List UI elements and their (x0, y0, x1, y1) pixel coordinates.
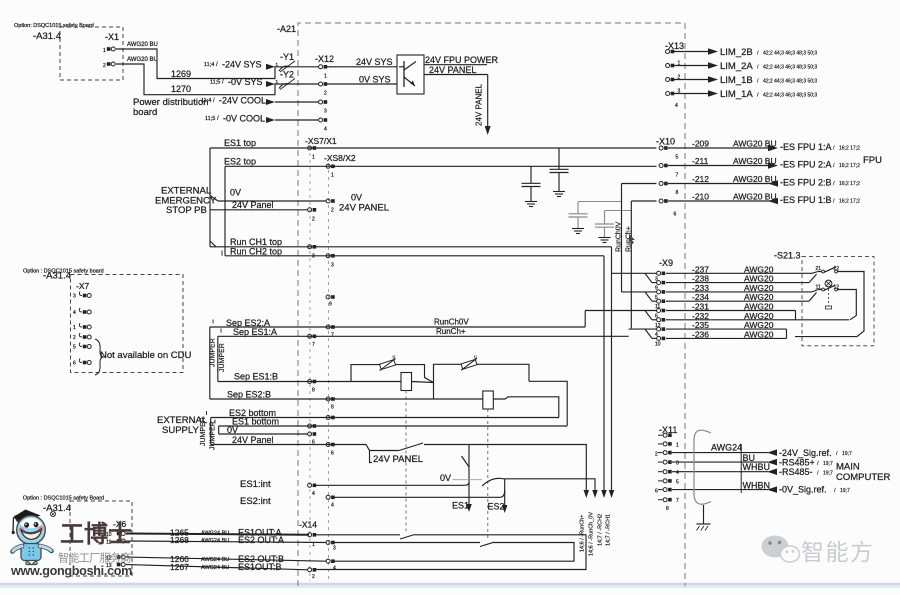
svg-text:AWG20 BU: AWG20 BU (733, 192, 777, 202)
svg-text:2: 2 (331, 208, 334, 214)
svg-text:1267: 1267 (170, 562, 189, 572)
svg-text:24V PANEL: 24V PANEL (429, 65, 476, 75)
svg-text:JUMPER: JUMPER (219, 343, 226, 372)
svg-text:-A31.4: -A31.4 (43, 271, 71, 282)
svg-text:-ES FPU 2:A: -ES FPU 2:A (780, 160, 832, 170)
svg-text:AWG24: AWG24 (711, 443, 742, 453)
svg-text:6: 6 (73, 361, 76, 367)
svg-text:-RS485-: -RS485- (779, 467, 813, 477)
svg-text:-S21.3: -S21.3 (774, 251, 801, 261)
svg-text:ES2: ES2 (488, 502, 505, 512)
svg-text:0V SYS: 0V SYS (359, 74, 391, 84)
svg-text:42;2 44;3 46;3 48;3 50;3: 42;2 44;3 46;3 48;3 50;3 (763, 79, 817, 85)
svg-text:14;7 / -RCH2: 14;7 / -RCH2 (598, 514, 604, 546)
svg-text:0V: 0V (351, 193, 362, 203)
svg-text:24V PANEL: 24V PANEL (373, 454, 423, 465)
svg-text:RunCh0V: RunCh0V (434, 318, 469, 327)
svg-text:AWG24 BU: AWG24 BU (201, 538, 229, 544)
svg-text:4: 4 (676, 470, 679, 476)
svg-text:7: 7 (676, 498, 679, 504)
svg-text:7: 7 (312, 342, 315, 348)
svg-text:-XS7/X1: -XS7/X1 (305, 136, 337, 146)
svg-text:1: 1 (73, 325, 76, 331)
svg-text:-X9: -X9 (659, 258, 673, 268)
svg-text:4: 4 (331, 503, 334, 509)
svg-text:19;7: 19;7 (840, 488, 850, 494)
svg-text:24V FPU POWER: 24V FPU POWER (425, 55, 499, 65)
svg-text:ES1:int: ES1:int (240, 479, 271, 490)
svg-text:21: 21 (816, 266, 822, 272)
svg-text:8: 8 (312, 388, 315, 394)
svg-text:FPU: FPU (863, 155, 882, 166)
svg-text:Not available on CDU: Not available on CDU (100, 350, 191, 361)
svg-text:8: 8 (666, 506, 669, 512)
svg-text:WHBU: WHBU (743, 462, 771, 472)
svg-text:www.gongboshi.com: www.gongboshi.com (10, 564, 132, 578)
svg-text:-24V SYS: -24V SYS (222, 60, 262, 70)
svg-text:16;2 17;2: 16;2 17;2 (839, 163, 860, 169)
svg-text:10: 10 (655, 341, 661, 347)
svg-text:-A31.4: -A31.4 (43, 503, 71, 514)
svg-text:1269: 1269 (171, 69, 191, 79)
svg-text:LIM_2B: LIM_2B (720, 47, 753, 58)
svg-text:19;7: 19;7 (823, 471, 833, 477)
svg-text:AWG24 BU: AWG24 BU (201, 531, 229, 537)
svg-text:WHBN: WHBN (743, 481, 771, 491)
svg-text:3: 3 (331, 263, 334, 269)
svg-text:MAIN: MAIN (836, 462, 860, 473)
svg-text:2: 2 (655, 452, 658, 458)
svg-text:AWG24 BU: AWG24 BU (201, 565, 229, 571)
svg-text:6: 6 (331, 451, 334, 457)
svg-text:ES1 top: ES1 top (224, 138, 256, 148)
svg-text:-ES FPU 2:B: -ES FPU 2:B (780, 178, 832, 188)
svg-text:42;2 44;3 46;3 48;3 50;3: 42;2 44;3 46;3 48;3 50;3 (763, 93, 817, 99)
svg-text:6: 6 (674, 212, 677, 218)
svg-text:0V: 0V (440, 473, 451, 483)
svg-text:AWG20 BU: AWG20 BU (127, 57, 158, 63)
svg-text:Sep ES2:B: Sep ES2:B (227, 390, 271, 400)
svg-text:1: 1 (676, 442, 679, 448)
svg-text:Run CH2 top: Run CH2 top (230, 247, 282, 257)
svg-text:JUMPER: JUMPER (200, 417, 207, 446)
svg-text:ES2 top: ES2 top (224, 157, 256, 167)
svg-text:24V SYS: 24V SYS (356, 57, 393, 67)
svg-text:3: 3 (333, 546, 336, 552)
svg-text:AWG20 BU: AWG20 BU (733, 174, 777, 184)
svg-text:24V PANEL: 24V PANEL (475, 83, 484, 126)
svg-text:ES1: ES1 (452, 501, 469, 511)
svg-text:1: 1 (312, 155, 315, 161)
svg-text:Option: DSQC1015 safety Board: Option: DSQC1015 safety Board (14, 23, 94, 29)
svg-text:-A21: -A21 (277, 24, 296, 34)
svg-text:3: 3 (676, 461, 679, 467)
svg-text:STOP PB: STOP PB (166, 205, 207, 216)
svg-text:RunCh+: RunCh+ (436, 327, 466, 336)
svg-text:7: 7 (331, 333, 334, 339)
svg-text:1268: 1268 (170, 535, 189, 545)
svg-text:-Y1: -Y1 (280, 52, 294, 62)
svg-text:-A31.4: -A31.4 (33, 31, 61, 42)
svg-text:0V: 0V (230, 188, 241, 198)
svg-text:1: 1 (324, 73, 327, 79)
svg-text:1270: 1270 (171, 84, 191, 94)
svg-text:6: 6 (655, 489, 658, 495)
svg-text:2: 2 (73, 335, 76, 341)
svg-text:Sep ES1:B: Sep ES1:B (234, 372, 278, 382)
svg-text:5: 5 (676, 155, 679, 161)
svg-text:2: 2 (312, 574, 315, 580)
svg-text:8: 8 (676, 190, 679, 196)
svg-text:-24V COOL: -24V COOL (219, 96, 266, 106)
svg-text:-0V_Sig.ref.: -0V_Sig.ref. (779, 485, 827, 495)
svg-text:COMPUTER: COMPUTER (836, 472, 891, 483)
svg-text:ES1 bottom: ES1 bottom (232, 417, 279, 427)
svg-text:11: 11 (816, 284, 821, 290)
svg-text:-0V SYS: -0V SYS (228, 77, 263, 87)
svg-text:1: 1 (331, 173, 334, 179)
svg-text:1: 1 (103, 48, 106, 54)
svg-text:14;6 / -RunCh+: 14;6 / -RunCh+ (580, 515, 586, 552)
svg-text:AWG20 BU: AWG20 BU (733, 156, 777, 166)
svg-text:board: board (133, 107, 157, 118)
svg-text:-X10: -X10 (656, 137, 675, 147)
svg-text:4: 4 (324, 127, 327, 133)
svg-text:7: 7 (676, 173, 679, 179)
svg-text:LIM_1A: LIM_1A (720, 89, 753, 100)
svg-text:-Y2: -Y2 (280, 70, 294, 80)
svg-text:AWG24 BU: AWG24 BU (201, 557, 229, 563)
svg-text:5: 5 (676, 479, 679, 485)
svg-text:-RS485+: -RS485+ (779, 458, 815, 468)
svg-text:ES2:int: ES2:int (240, 496, 271, 507)
svg-text:-ES FPU 1:A: -ES FPU 1:A (780, 142, 832, 152)
svg-text:智能方: 智能方 (801, 539, 875, 565)
svg-text:ES1OUT:B: ES1OUT:B (238, 562, 282, 572)
svg-text:-24V_Sig.ref.: -24V_Sig.ref. (779, 448, 832, 458)
svg-text:11;4: 11;4 (204, 62, 214, 68)
svg-text:11;5: 11;5 (205, 116, 215, 122)
svg-text:16;2 17;2: 16;2 17;2 (839, 181, 860, 187)
svg-text:19;7: 19;7 (842, 451, 852, 457)
svg-text:LIM_1B: LIM_1B (720, 75, 753, 86)
svg-text:AWG20 BU: AWG20 BU (127, 42, 158, 48)
svg-text:-210: -210 (692, 192, 709, 202)
svg-text:3: 3 (73, 294, 76, 300)
svg-text:LIM_2A: LIM_2A (720, 61, 753, 72)
svg-text:3: 3 (312, 254, 315, 260)
svg-text:14;7 / -RCH1: 14;7 / -RCH1 (606, 514, 612, 546)
svg-text:1: 1 (312, 542, 315, 548)
svg-text:RunCh0V: RunCh0V (616, 221, 623, 252)
svg-text:9: 9 (329, 302, 332, 308)
svg-text:42;2 44;3 46;3 48;3 50;3: 42;2 44;3 46;3 48;3 50;3 (763, 65, 817, 71)
svg-text:2: 2 (324, 91, 327, 97)
svg-text:16;2 17;2: 16;2 17;2 (839, 146, 860, 152)
svg-text:AWG20 BU: AWG20 BU (733, 139, 777, 149)
svg-text:11;5: 11;5 (210, 80, 220, 86)
svg-text:-0V COOL: -0V COOL (223, 114, 265, 124)
svg-text:JUMPER: JUMPER (210, 338, 217, 367)
svg-text:4: 4 (333, 566, 336, 572)
svg-text:Sep ES1:A: Sep ES1:A (233, 327, 277, 337)
svg-text:42;2 44;3 46;3 48;3 50;3: 42;2 44;3 46;3 48;3 50;3 (763, 51, 817, 57)
svg-text:SUPPLY: SUPPLY (162, 425, 199, 436)
svg-text:14;6 / -RunCh_0V: 14;6 / -RunCh_0V (589, 512, 595, 556)
svg-text:2: 2 (312, 217, 315, 223)
svg-text:4: 4 (73, 310, 76, 316)
svg-text:4: 4 (312, 491, 315, 497)
svg-text:-212: -212 (692, 174, 709, 184)
svg-text:工博士: 工博士 (60, 521, 132, 548)
svg-text:智能工厂服务商: 智能工厂服务商 (58, 551, 131, 565)
svg-text:19;7: 19;7 (823, 461, 833, 467)
svg-text:8: 8 (331, 405, 334, 411)
svg-text:2: 2 (103, 63, 106, 69)
svg-text:-XS8/X2: -XS8/X2 (324, 153, 356, 163)
svg-text:4: 4 (675, 103, 678, 109)
svg-text:24V PANEL: 24V PANEL (339, 203, 389, 214)
svg-text:5: 5 (73, 345, 76, 351)
svg-text:24V Panel: 24V Panel (232, 435, 274, 445)
svg-text:16;2 17;2: 16;2 17;2 (839, 199, 860, 205)
svg-text:-X12: -X12 (315, 54, 334, 64)
svg-text:u: u (393, 355, 396, 361)
svg-text:11;4: 11;4 (201, 98, 211, 104)
svg-text:ES2 OUT:A: ES2 OUT:A (238, 535, 284, 545)
svg-text:-ES FPU 1:B: -ES FPU 1:B (780, 195, 832, 205)
svg-text:-X1: -X1 (105, 32, 119, 42)
svg-text:-209: -209 (692, 139, 709, 149)
svg-text:-X14: -X14 (299, 520, 317, 530)
svg-text:-X7: -X7 (76, 281, 90, 291)
svg-text:-211: -211 (692, 156, 709, 166)
svg-text:u: u (474, 354, 477, 360)
svg-text:3: 3 (324, 109, 327, 115)
svg-text:Run CH1 top: Run CH1 top (230, 237, 282, 247)
svg-text:24V Panel: 24V Panel (232, 200, 274, 210)
